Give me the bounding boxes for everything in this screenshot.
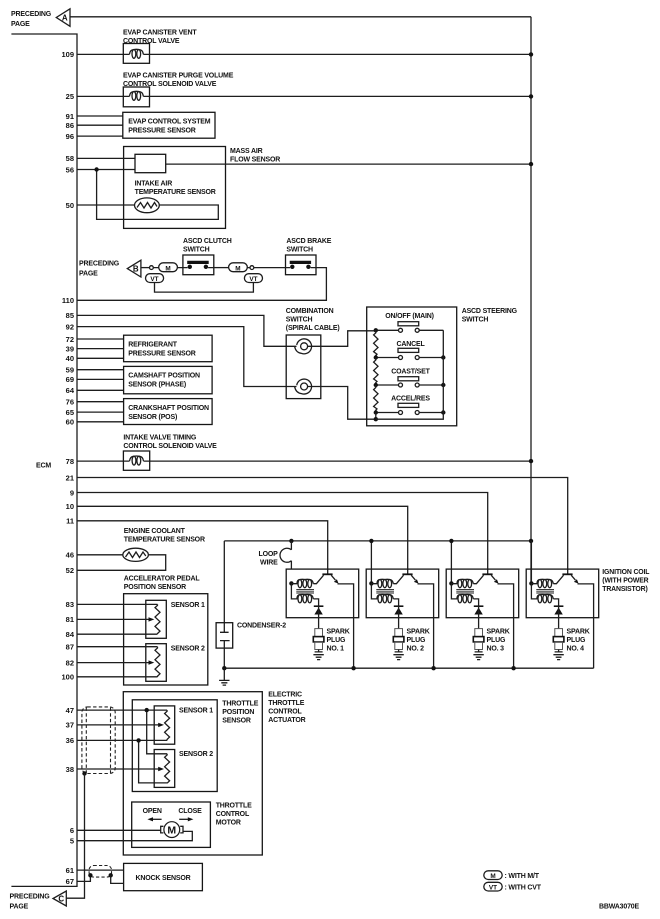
svg-text:84: 84 bbox=[66, 630, 75, 639]
TP sensor 1 resistor bbox=[165, 710, 170, 740]
wire secondary 3 to diode bbox=[473, 599, 478, 606]
wire resistor chain to bottom rail bbox=[375, 413, 377, 420]
resistor chain segment 1 bbox=[374, 330, 378, 357]
wire primary feed 2 bbox=[370, 541, 372, 584]
transistor Q4 base bar bbox=[562, 573, 572, 575]
shielded cable (knock sensor) bbox=[89, 866, 111, 878]
svg-text:NO. 2: NO. 2 bbox=[407, 646, 425, 653]
svg-text:76: 76 bbox=[66, 398, 74, 407]
spark plug no. 3 bbox=[473, 629, 484, 660]
svg-text:6: 6 bbox=[70, 826, 74, 835]
wire diode 1 to spark plug bbox=[318, 618, 320, 629]
svg-text:SENSOR 2: SENSOR 2 bbox=[179, 751, 213, 758]
wire pin83 to sensor1 top bbox=[77, 603, 158, 605]
svg-text:POSITION SENSOR: POSITION SENSOR bbox=[124, 584, 186, 591]
svg-text:59: 59 bbox=[66, 366, 74, 375]
motor M1 bbox=[161, 822, 183, 838]
svg-text:COAST/SET: COAST/SET bbox=[391, 369, 430, 376]
ignition coil 1 secondary winding bbox=[291, 583, 313, 603]
svg-text:82: 82 bbox=[66, 658, 74, 667]
COAST/SET switch bar bbox=[398, 377, 419, 381]
wire pin86 bbox=[77, 124, 123, 126]
svg-text:PRESSURE SENSOR: PRESSURE SENSOR bbox=[128, 127, 195, 134]
ACCEL/RES contacts row bbox=[376, 411, 444, 415]
spiral cable 1 bbox=[295, 339, 312, 354]
svg-text:SENSOR (POS): SENSOR (POS) bbox=[128, 414, 177, 421]
svg-text:ON/OFF (MAIN): ON/OFF (MAIN) bbox=[385, 313, 434, 320]
node emitter 1 bbox=[351, 666, 355, 670]
svg-text:FLOW SENSOR: FLOW SENSOR bbox=[230, 156, 280, 163]
svg-text:38: 38 bbox=[66, 765, 74, 774]
M/T oval 2 bbox=[229, 263, 248, 273]
svg-text:TRANSISTOR): TRANSISTOR) bbox=[602, 586, 647, 593]
svg-text:SENSOR 2: SENSOR 2 bbox=[171, 646, 205, 653]
ON/OFF switch bar bbox=[398, 322, 419, 326]
svg-text:PLUG: PLUG bbox=[407, 637, 426, 644]
wire pin56 bbox=[77, 169, 135, 171]
node primary 1 bbox=[289, 581, 293, 585]
node pin36 branch bbox=[136, 738, 140, 742]
ignition coil 1 primary winding bbox=[291, 579, 313, 587]
svg-text:THROTTLE: THROTTLE bbox=[268, 700, 304, 707]
wire valve to right bus bbox=[150, 95, 532, 97]
COAST/SET contacts row bbox=[376, 383, 444, 387]
svg-text:61: 61 bbox=[66, 866, 74, 875]
evap canister vent control valve (solenoid) bbox=[123, 44, 149, 64]
svg-text:CLOSE: CLOSE bbox=[178, 808, 202, 815]
svg-text:ACCEL/RES: ACCEL/RES bbox=[391, 395, 430, 402]
svg-text:40: 40 bbox=[66, 354, 74, 363]
svg-text:SENSOR (PHASE): SENSOR (PHASE) bbox=[128, 382, 186, 389]
shielded cable (TP wires) bbox=[82, 707, 115, 774]
wire condenser to ground rail bbox=[223, 648, 225, 668]
wire pin64 bbox=[77, 389, 124, 391]
svg-text:SPARK: SPARK bbox=[487, 629, 510, 636]
svg-text:52: 52 bbox=[66, 566, 74, 575]
svg-text:SENSOR 1: SENSOR 1 bbox=[171, 602, 205, 609]
spark plug no. 2 label bbox=[407, 629, 430, 653]
throttle control motor label bbox=[216, 803, 252, 827]
wire pin5 to motor bbox=[77, 831, 192, 840]
node row2 left bbox=[374, 355, 378, 359]
ground symbol (condenser) bbox=[219, 668, 229, 685]
ignition coil 2 secondary winding bbox=[371, 583, 393, 603]
node bottom rail bbox=[374, 417, 378, 421]
APP sensor 2 box bbox=[146, 644, 167, 682]
wire pin61 to knock sensor bbox=[77, 869, 124, 871]
ignition coil 2 core bbox=[376, 589, 394, 593]
node knock shield left bbox=[88, 873, 92, 877]
wire shield drain to preceding page C bbox=[66, 774, 84, 899]
wire spiral 2 to ASCD steering switch bbox=[308, 387, 376, 420]
wire spiral 1 to ASCD steering switch bbox=[308, 331, 376, 347]
svg-text:SPARK: SPARK bbox=[407, 629, 430, 636]
node row3 left bbox=[374, 383, 378, 387]
svg-text:SENSOR: SENSOR bbox=[222, 718, 251, 725]
wire pin38 wiper arrow bbox=[77, 767, 164, 771]
wire pin47 to TP sensors bbox=[77, 710, 167, 754]
svg-text:10: 10 bbox=[66, 502, 74, 511]
wire pin92 to spiral cable 2 bbox=[77, 327, 297, 387]
wire valve to right bus bbox=[150, 53, 532, 55]
wire primary feed 3 bbox=[450, 541, 452, 584]
node shield drain bbox=[82, 771, 86, 775]
wire emitter 2 to ground rail bbox=[418, 584, 434, 668]
svg-text:9: 9 bbox=[70, 488, 74, 497]
svg-text:PLUG: PLUG bbox=[487, 637, 506, 644]
svg-text:PRECEDING: PRECEDING bbox=[10, 893, 51, 900]
svg-text:PAGE: PAGE bbox=[79, 270, 98, 277]
wire diode 2 to spark plug bbox=[398, 618, 400, 629]
throttle control motor box bbox=[132, 802, 211, 847]
wire pin60 bbox=[77, 421, 124, 423]
wire supply rail to condenser bbox=[223, 541, 225, 623]
junction node bbox=[529, 162, 533, 166]
svg-text:M: M bbox=[165, 265, 170, 272]
svg-text:83: 83 bbox=[66, 600, 74, 609]
svg-text:CONDENSER-2: CONDENSER-2 bbox=[237, 623, 286, 630]
junction node bbox=[529, 459, 533, 463]
ACCEL/RES switch bar bbox=[398, 403, 419, 407]
transistor Q3 emitter lead with arrow bbox=[491, 575, 498, 583]
resistor chain segment 2 bbox=[374, 358, 378, 386]
engine coolant temperature sensor (thermistor) bbox=[123, 548, 149, 561]
svg-text:60: 60 bbox=[66, 418, 74, 427]
svg-text:ACCELERATOR PEDAL: ACCELERATOR PEDAL bbox=[124, 576, 201, 583]
ground rail wire bbox=[224, 667, 593, 669]
wire pin100 to sensor2 bottom bbox=[77, 676, 158, 678]
svg-text:39: 39 bbox=[66, 344, 74, 353]
wire clutch switch to M oval 2 bbox=[214, 267, 229, 269]
throttle position sensor box bbox=[132, 700, 217, 792]
svg-text:91: 91 bbox=[66, 112, 74, 121]
transistor Q1 emitter lead with arrow bbox=[331, 575, 338, 583]
svg-text:: WITH M/T: : WITH M/T bbox=[505, 873, 540, 880]
wire pin81 wiper arrow bbox=[77, 617, 154, 621]
APP sensor 1 box bbox=[146, 600, 167, 638]
electric throttle control actuator label bbox=[268, 692, 305, 725]
svg-text:46: 46 bbox=[66, 551, 74, 560]
wire pin109 to valve bbox=[77, 53, 123, 55]
diode D4 bbox=[554, 606, 564, 618]
wire pin69 bbox=[77, 378, 124, 380]
ECM bus wire (left) bbox=[11, 34, 77, 886]
CVT bypass wire bbox=[155, 283, 254, 293]
spark plug no. 1 bbox=[313, 629, 324, 660]
svg-text:NO. 1: NO. 1 bbox=[327, 646, 345, 653]
svg-text:CONTROL: CONTROL bbox=[268, 709, 302, 716]
svg-text:EVAP CANISTER PURGE VOLUME: EVAP CANISTER PURGE VOLUME bbox=[123, 73, 234, 80]
svg-text:OPEN: OPEN bbox=[143, 808, 162, 815]
wire pin58 bbox=[77, 157, 135, 159]
ignition coil unit 3 box bbox=[446, 569, 519, 618]
wire pin59 bbox=[77, 369, 124, 371]
svg-text:85: 85 bbox=[66, 311, 74, 320]
svg-text:SENSOR 1: SENSOR 1 bbox=[179, 708, 213, 715]
wire pin40 bbox=[77, 357, 124, 359]
wire diode 4 to spark plug bbox=[558, 618, 560, 629]
svg-text:67: 67 bbox=[66, 877, 74, 886]
svg-text:CONTROL SOLENOID VALVE: CONTROL SOLENOID VALVE bbox=[123, 443, 217, 450]
svg-text:SWITCH: SWITCH bbox=[286, 316, 313, 323]
svg-text:PRESSURE SENSOR: PRESSURE SENSOR bbox=[128, 350, 195, 357]
ignition coil 4 primary winding bbox=[531, 579, 553, 587]
svg-text:78: 78 bbox=[66, 457, 74, 466]
ignition coil label bbox=[602, 569, 649, 593]
combination switch (spiral cable) box bbox=[286, 335, 321, 399]
ignition coil 1 core bbox=[296, 589, 314, 593]
diode D1 bbox=[314, 606, 324, 618]
wire pin37 wiper arrow bbox=[77, 723, 164, 727]
APP sensor 2 resistor bbox=[155, 647, 160, 677]
node row1 left bbox=[374, 328, 378, 332]
legend M/T oval bbox=[484, 871, 540, 880]
coil supply rail wire bbox=[224, 540, 531, 542]
node row2 right bbox=[441, 355, 445, 359]
svg-text:NO. 3: NO. 3 bbox=[487, 646, 505, 653]
camshaft position sensor box bbox=[124, 366, 213, 393]
svg-text:VT: VT bbox=[150, 276, 158, 283]
node on coil supply rail bbox=[369, 539, 373, 543]
svg-text:SWITCH: SWITCH bbox=[286, 247, 313, 254]
ON/OFF contacts row bbox=[376, 328, 444, 332]
transistor Q2 emitter lead with arrow bbox=[411, 575, 418, 583]
svg-text:CANCEL: CANCEL bbox=[396, 341, 425, 348]
wire pin67 to knock shield bbox=[77, 875, 90, 881]
transistor Q3 base bar bbox=[482, 573, 492, 575]
ASCD clutch switch bbox=[183, 255, 214, 275]
MAF inner element box bbox=[135, 154, 166, 172]
svg-text:C: C bbox=[58, 895, 64, 904]
wire pin65 bbox=[77, 411, 124, 413]
svg-text:NO. 4: NO. 4 bbox=[567, 646, 585, 653]
svg-text:110: 110 bbox=[62, 296, 74, 305]
svg-text:BBWA3070E: BBWA3070E bbox=[599, 903, 640, 910]
node primary 2 bbox=[369, 581, 373, 585]
wire pin72 bbox=[77, 338, 124, 340]
svg-text:THROTTLE: THROTTLE bbox=[222, 701, 258, 708]
svg-text:PRECEDING: PRECEDING bbox=[79, 260, 120, 267]
wire pin76 bbox=[77, 401, 124, 403]
ASCD brake switch bbox=[286, 255, 317, 275]
svg-text:50: 50 bbox=[66, 201, 74, 210]
wire emitter 4 to ground rail bbox=[578, 584, 594, 668]
wire pin25 to valve bbox=[77, 95, 123, 97]
wire pin39 bbox=[77, 348, 124, 350]
wire from A to right bus bbox=[70, 16, 531, 18]
node row4 left bbox=[374, 410, 378, 414]
diode D2 bbox=[394, 606, 404, 618]
svg-text:EVAP CONTROL SYSTEM: EVAP CONTROL SYSTEM bbox=[128, 118, 210, 125]
node emitter 3 bbox=[511, 666, 515, 670]
svg-text:KNOCK SENSOR: KNOCK SENSOR bbox=[135, 875, 190, 882]
ignition coil 4 secondary winding bbox=[531, 583, 553, 603]
node primary 4 bbox=[529, 581, 533, 585]
svg-text:THROTTLE: THROTTLE bbox=[216, 803, 252, 810]
wire secondary 4 to diode bbox=[553, 599, 558, 606]
contact circle 2 bbox=[250, 266, 254, 270]
TP sensor 2 resistor bbox=[165, 754, 170, 784]
transistor Q4 collector lead bbox=[553, 575, 563, 584]
spiral cable 2 bbox=[295, 379, 312, 394]
node pin47 branch bbox=[145, 708, 149, 712]
connector triangle B bbox=[127, 260, 141, 277]
svg-text:B: B bbox=[133, 265, 139, 274]
svg-text:87: 87 bbox=[66, 643, 74, 652]
svg-text:109: 109 bbox=[61, 50, 74, 59]
resistor chain segment 3 bbox=[374, 385, 378, 413]
svg-text:5: 5 bbox=[70, 837, 74, 846]
evap canister purge volume control solenoid valve (solenoid) bbox=[123, 87, 149, 107]
wire pin50 bbox=[77, 204, 135, 206]
wire pin82 wiper arrow bbox=[77, 660, 154, 664]
wire MAF output to right bus bbox=[166, 163, 531, 165]
throttle position sensor label bbox=[222, 701, 258, 725]
svg-text:LOOP: LOOP bbox=[258, 551, 278, 558]
svg-text:ASCD BRAKE: ASCD BRAKE bbox=[286, 238, 331, 245]
wire pin11 to ignition coil 1 base bbox=[77, 521, 328, 574]
intake valve timing control solenoid valve (solenoid) bbox=[123, 451, 149, 470]
spark plug no. 3 label bbox=[487, 629, 510, 653]
svg-text:100: 100 bbox=[61, 673, 74, 682]
transistor Q3 collector lead bbox=[473, 575, 483, 584]
condenser-2 bbox=[216, 623, 233, 648]
ignition coil unit 2 box bbox=[366, 569, 439, 618]
svg-text:EVAP CANISTER VENT: EVAP CANISTER VENT bbox=[123, 30, 197, 37]
svg-text:A: A bbox=[62, 14, 68, 23]
node loop wire branch bbox=[289, 539, 293, 543]
wire pin10 to ignition coil 2 base bbox=[77, 506, 408, 574]
contact circle bbox=[150, 266, 154, 270]
svg-text:(SPIRAL CABLE): (SPIRAL CABLE) bbox=[286, 325, 340, 332]
wire pin87 to sensor2 top bbox=[77, 646, 158, 648]
spark plug no. 4 bbox=[553, 629, 564, 660]
diode D3 bbox=[474, 606, 484, 618]
node row3 right bbox=[441, 383, 445, 387]
right rail wire bbox=[376, 330, 444, 419]
ignition coil unit 4 box bbox=[526, 569, 599, 618]
svg-text:25: 25 bbox=[66, 92, 74, 101]
junction node bbox=[529, 52, 533, 56]
svg-text:86: 86 bbox=[66, 121, 74, 130]
junction node bbox=[529, 94, 533, 98]
wire to brake switch bbox=[247, 267, 285, 269]
svg-text:21: 21 bbox=[66, 473, 74, 482]
svg-text:CONTROL: CONTROL bbox=[216, 811, 250, 818]
ignition coil 3 core bbox=[456, 589, 474, 593]
svg-text:PLUG: PLUG bbox=[327, 637, 346, 644]
right bus wire bbox=[530, 17, 532, 584]
wire pin85 to spiral cable 1 bbox=[77, 315, 297, 346]
wire knock shield to sensor body bbox=[111, 875, 124, 883]
wire pin21 to ignition coil 4 base bbox=[77, 478, 568, 574]
ignition coil 2 primary winding bbox=[371, 579, 393, 587]
svg-text:ELECTRIC: ELECTRIC bbox=[268, 692, 302, 699]
svg-text:TEMPERATURE SENSOR: TEMPERATURE SENSOR bbox=[135, 189, 216, 196]
transistor Q4 emitter lead with arrow bbox=[571, 575, 578, 583]
wire secondary 2 to diode bbox=[393, 599, 398, 606]
node on coil supply rail bbox=[449, 539, 453, 543]
knock sensor label-box bbox=[124, 863, 203, 890]
transistor Q1 base bar bbox=[322, 573, 332, 575]
svg-text:ACTUATOR: ACTUATOR bbox=[268, 717, 305, 724]
transistor Q1 collector lead bbox=[313, 575, 323, 584]
svg-text:SPARK: SPARK bbox=[567, 629, 590, 636]
svg-text:PAGE: PAGE bbox=[10, 903, 29, 910]
node supply rail / right bus bbox=[529, 539, 533, 543]
VT oval 1 bbox=[146, 274, 164, 283]
svg-text:SWITCH: SWITCH bbox=[183, 247, 210, 254]
svg-text:PLUG: PLUG bbox=[567, 637, 586, 644]
ignition coil 4 core bbox=[536, 589, 554, 593]
connector triangle A bbox=[56, 9, 70, 27]
ignition coil unit 1 box bbox=[286, 569, 359, 618]
svg-text:M: M bbox=[167, 824, 176, 836]
wire pin9 to ignition coil 3 base bbox=[77, 493, 488, 574]
preceding page C label bbox=[10, 893, 51, 910]
svg-text:92: 92 bbox=[66, 322, 74, 331]
wire emitter 3 to ground rail bbox=[498, 584, 514, 668]
svg-text:56: 56 bbox=[66, 165, 74, 174]
svg-text:ECM: ECM bbox=[36, 463, 51, 470]
svg-text:COMBINATION: COMBINATION bbox=[286, 308, 334, 315]
svg-text:MOTOR: MOTOR bbox=[216, 820, 241, 827]
loop wire label bbox=[258, 551, 278, 567]
ASCD steering switch box bbox=[367, 307, 457, 426]
svg-text:64: 64 bbox=[66, 386, 75, 395]
svg-text:TEMPERATURE SENSOR: TEMPERATURE SENSOR bbox=[124, 537, 205, 544]
wire pin36 to TP sensors bbox=[77, 740, 167, 783]
svg-text:PAGE: PAGE bbox=[11, 21, 30, 28]
svg-text:SPARK: SPARK bbox=[327, 629, 350, 636]
svg-text:SWITCH: SWITCH bbox=[462, 317, 489, 324]
svg-text:65: 65 bbox=[66, 408, 74, 417]
wire pin46 bbox=[77, 554, 123, 556]
svg-text:POSITION: POSITION bbox=[222, 709, 254, 716]
svg-text:47: 47 bbox=[66, 706, 74, 715]
wire pin91 bbox=[77, 115, 123, 117]
intake air temperature sensor (thermistor) bbox=[135, 198, 160, 213]
evap control system pressure sensor box bbox=[123, 112, 215, 138]
svg-text:96: 96 bbox=[66, 132, 74, 141]
transistor Q2 base bar bbox=[402, 573, 412, 575]
wire secondary 1 to diode bbox=[313, 599, 318, 606]
junction node on pin56 wire bbox=[94, 167, 98, 171]
svg-text:M: M bbox=[490, 873, 495, 880]
svg-text:ENGINE COOLANT: ENGINE COOLANT bbox=[124, 528, 186, 535]
wire primary feed 4 bbox=[530, 541, 532, 584]
svg-text:72: 72 bbox=[66, 335, 74, 344]
wire diode 3 to spark plug bbox=[478, 618, 480, 629]
svg-text:81: 81 bbox=[66, 615, 74, 624]
spark plug no. 1 label bbox=[327, 629, 350, 653]
node row4 right bbox=[441, 410, 445, 414]
svg-text:36: 36 bbox=[66, 736, 74, 745]
APP sensor 1 resistor bbox=[155, 604, 160, 634]
CANCEL switch bar bbox=[398, 348, 419, 352]
transistor Q2 collector lead bbox=[393, 575, 403, 584]
M/T oval 1 bbox=[159, 263, 178, 273]
CANCEL contacts row bbox=[376, 356, 444, 360]
close direction arrow bbox=[179, 817, 193, 821]
svg-text:INTAKE AIR: INTAKE AIR bbox=[135, 180, 173, 187]
refrigerant pressure sensor box bbox=[124, 335, 213, 362]
spark plug no. 4 label bbox=[567, 629, 590, 653]
svg-text:37: 37 bbox=[66, 721, 74, 730]
electric throttle control actuator box bbox=[123, 692, 262, 855]
svg-text:VT: VT bbox=[489, 885, 497, 892]
wire pin6 to motor bbox=[77, 829, 161, 831]
